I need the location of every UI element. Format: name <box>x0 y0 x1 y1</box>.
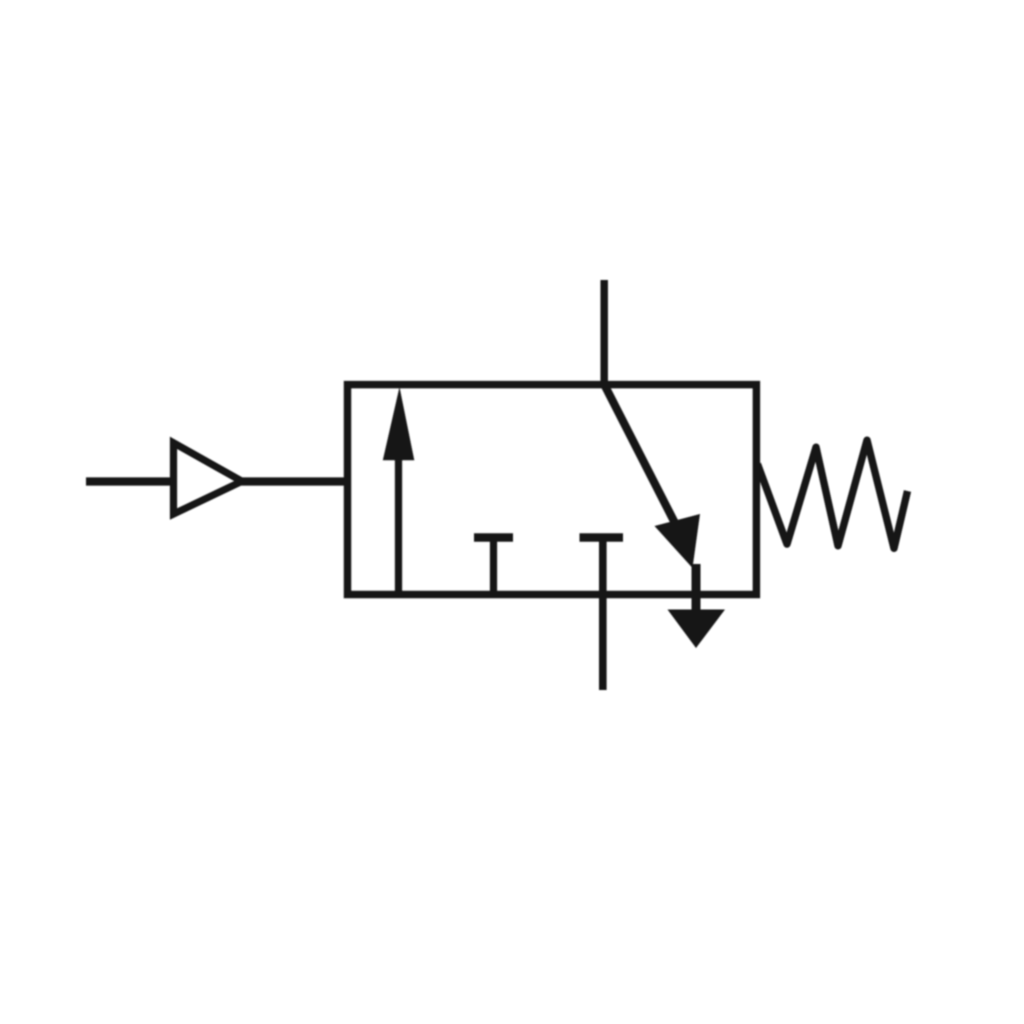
spring return <box>758 440 908 548</box>
flow arrow up stem <box>395 455 402 596</box>
blocked port T2 crossbar <box>580 533 624 542</box>
valve body box <box>348 385 757 595</box>
exhaust arrowhead <box>668 610 726 649</box>
top port line <box>600 280 608 388</box>
bottom port line <box>599 538 607 691</box>
flow arrow up head <box>383 387 415 460</box>
blocked port T1 stem <box>490 538 497 595</box>
wire pilot inlet line <box>86 477 175 485</box>
pilot actuator triangle <box>174 443 243 514</box>
blocked port T1 crossbar <box>474 533 513 542</box>
diagonal flow arrowhead <box>655 514 701 568</box>
exhaust stem <box>692 564 701 611</box>
diagonal flow path <box>605 386 679 531</box>
wire pilot triangle to valve body <box>241 477 349 485</box>
